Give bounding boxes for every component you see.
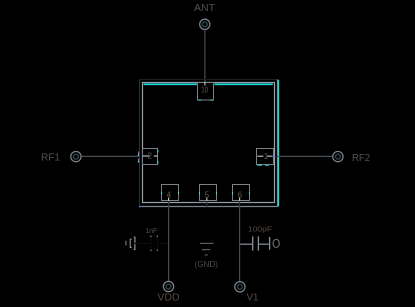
port P1 ANT bbox=[200, 19, 210, 29]
port P2 RF1 bbox=[71, 151, 81, 161]
svg-text:100pF: 100pF bbox=[248, 225, 272, 234]
chip U1 inner body rectangle bbox=[143, 83, 275, 203]
wire RF1 to chip left pin bbox=[81, 155, 140, 157]
svg-text:1: 1 bbox=[264, 152, 269, 161]
pin box top (pin 10) bbox=[198, 82, 214, 100]
svg-text:VDD: VDD bbox=[158, 292, 180, 303]
svg-text:1nF: 1nF bbox=[146, 226, 158, 235]
wire pin4 down to VDD bbox=[168, 206, 170, 281]
artifact dot pin 5 border gap bbox=[201, 202, 202, 203]
svg-text:(GND): (GND) bbox=[195, 260, 219, 269]
wire stub pin 4 through bottom border bbox=[168, 201, 170, 207]
artifact dot chip bottom-left corner bbox=[139, 206, 141, 208]
junction ticks at RF1 wire entry bbox=[138, 152, 139, 163]
chip U1 cyan highlight right edge bbox=[278, 80, 280, 207]
port P5 V1 bbox=[235, 282, 245, 292]
wire stub crossing right border to RF2 bbox=[276, 155, 279, 157]
pin box left (pin 2) bbox=[143, 149, 158, 165]
pin box bottom-right (pin 6) bbox=[233, 185, 250, 201]
capacitor C2 (100pF) bbox=[240, 236, 279, 250]
port P4 VDD bbox=[163, 281, 173, 291]
svg-text:V1: V1 bbox=[247, 293, 259, 304]
chip U1 cyan highlight top edge bbox=[144, 83, 273, 85]
wire pin6 down to V1 bbox=[239, 206, 241, 281]
port P3 RF2 bbox=[333, 151, 343, 161]
svg-text:5: 5 bbox=[205, 191, 210, 200]
wire ANT to chip pin 10 bbox=[204, 30, 206, 82]
capacitor C1 (1nF) dark plates with corner dots bbox=[137, 236, 168, 251]
svg-text:2: 2 bbox=[148, 152, 153, 161]
wire stub pin 5 through bottom border bbox=[206, 201, 208, 207]
svg-text:RF1: RF1 bbox=[41, 152, 60, 163]
pin box bottom-middle (pin 5) bbox=[200, 185, 217, 201]
svg-text:10: 10 bbox=[201, 85, 208, 94]
artifact dot pin 4 box corner bbox=[178, 185, 179, 186]
svg-text:6: 6 bbox=[238, 191, 243, 200]
wire stub pin 6 through bottom border bbox=[239, 201, 241, 207]
chip U1 outer shadow rectangle bbox=[140, 80, 278, 207]
svg-text:4: 4 bbox=[167, 191, 172, 200]
capacitor C1 outer electrode bars bbox=[126, 237, 135, 249]
ground symbol bbox=[200, 243, 214, 255]
svg-text:RF2: RF2 bbox=[352, 153, 370, 164]
pin box bottom-left (pin 4) bbox=[162, 185, 180, 201]
pin box right (pin 1) bbox=[257, 149, 274, 166]
svg-text:ANT: ANT bbox=[194, 3, 215, 14]
wire chip right pin to RF2 bbox=[279, 155, 333, 157]
